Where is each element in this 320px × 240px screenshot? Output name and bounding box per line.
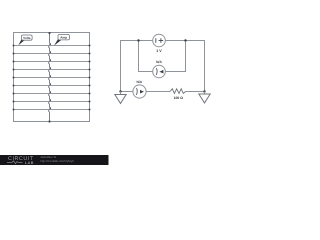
callout Amp box — [58, 35, 69, 40]
table row line 7 — [14, 93, 90, 95]
table junction dots left border — [13, 45, 15, 111]
table row line 1 — [14, 45, 90, 47]
table row line 2 — [14, 53, 90, 55]
wire top-left rail and left outer vertical — [121, 41, 153, 92]
svg-text:LAB: LAB — [25, 161, 34, 165]
svg-text:Asterides / B: Asterides / B — [41, 156, 56, 159]
node junction dot bottom-left ground — [119, 90, 121, 92]
svg-text:Amp: Amp — [60, 36, 67, 40]
wire resistor to right ground — [186, 91, 205, 93]
svg-text:N/A: N/A — [156, 60, 162, 64]
wire inner-right branch — [165, 41, 185, 72]
wire inner-left branch — [139, 41, 153, 72]
callout Volts box — [22, 35, 33, 40]
resistor R1 zigzag — [170, 89, 186, 94]
table row line 8 — [14, 101, 90, 103]
table junction dots divider — [48, 32, 51, 123]
table row line 5 — [14, 77, 90, 79]
wire top-right rail and right outer vertical — [165, 41, 204, 92]
ground right — [199, 92, 210, 103]
voltage source V1 — [153, 34, 166, 47]
table outer border — [14, 33, 90, 122]
table row line 4 — [14, 69, 90, 71]
table row line 6 — [14, 85, 90, 87]
ground left — [115, 92, 126, 104]
svg-text:1 V: 1 V — [156, 49, 162, 53]
table column divider with jump wiggles — [49, 33, 51, 122]
ammeter AM2 (parallel, arrow left) — [153, 65, 166, 78]
node junction dot bottom-right ground — [203, 90, 205, 92]
wire bottom left segment — [121, 91, 134, 93]
watermark logo waveform — [7, 161, 23, 164]
watermark bar — [0, 155, 109, 165]
ammeter AM1 (series, arrow right) — [133, 85, 146, 98]
table row line 3 — [14, 61, 90, 63]
svg-text:Volts: Volts — [23, 36, 31, 40]
svg-text:100 Ω: 100 Ω — [174, 96, 184, 100]
table junction dots right border — [89, 45, 91, 111]
table row line 9 — [14, 109, 90, 111]
wire ammeter to resistor — [146, 91, 170, 93]
node junction dot top-left inner — [137, 39, 139, 41]
callout Amp tail — [54, 39, 61, 46]
callout Volts tail — [18, 39, 24, 46]
svg-text:N/A: N/A — [136, 80, 142, 84]
node junction dot top-right inner — [184, 39, 186, 41]
svg-text:http://circuitlab.com/c/q52y5: http://circuitlab.com/c/q52y5 — [41, 160, 75, 163]
